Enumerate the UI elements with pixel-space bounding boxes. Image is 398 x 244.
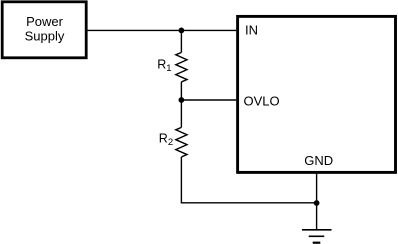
wire: junction down to R1 (180, 30, 182, 52)
wire: junction to OVLO pin (181, 99, 236, 101)
svg-text:OVLO: OVLO (244, 94, 280, 109)
wire: R2 down then right to ground node (181, 157, 316, 203)
wire: power supply to IN pin (87, 29, 237, 31)
resistor R2 (159, 127, 187, 157)
ground symbol (302, 230, 332, 243)
wire: GND pin down to ground (316, 174, 318, 230)
svg-text:IN: IN (245, 22, 258, 37)
node junction at OVLO tap (179, 97, 185, 103)
svg-text:Power: Power (26, 14, 64, 29)
power supply block PS (2, 2, 86, 58)
node junction at ground net (314, 200, 320, 206)
svg-text:GND: GND (304, 153, 333, 168)
IC block U1 (238, 16, 396, 172)
resistor R1 (157, 52, 187, 82)
svg-text:Supply: Supply (25, 29, 65, 44)
node junction on IN wire (179, 28, 185, 34)
wire: R1 to mid junction (180, 82, 182, 100)
wire: junction down to R2 (180, 100, 182, 127)
